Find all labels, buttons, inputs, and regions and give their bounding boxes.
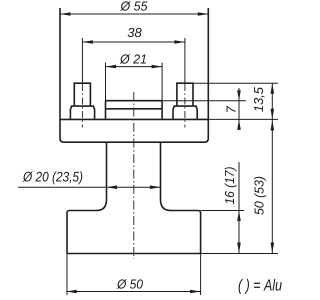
arrow 38 left	[82, 40, 93, 44]
extension lines Ø50	[67, 254, 201, 296]
arrow Ø50 right	[190, 290, 201, 294]
stud left base	[70, 106, 94, 119]
stem Ø20 sides with fillets	[97, 142, 171, 210]
projection line knob bottom	[201, 253, 278, 255]
stud right shank	[177, 83, 193, 105]
arrow 13,5 bottom	[271, 109, 275, 120]
label 16 (17)	[225, 167, 237, 204]
flange top edge	[60, 118, 208, 120]
projection line flange top	[208, 118, 278, 120]
arrow 7 top	[237, 90, 241, 101]
knob Ø50 outline	[67, 211, 201, 254]
dimension Ø55 line	[60, 13, 208, 15]
arrow 38 right	[174, 40, 185, 44]
dimension 16 (17) line	[238, 162, 240, 253]
arrow Ø55 right	[198, 12, 209, 16]
projection line boss top	[162, 100, 246, 102]
extension lines Ø21	[106, 63, 163, 101]
stud right base	[173, 106, 197, 119]
label Ø21	[120, 54, 146, 64]
arrow 50 bottom	[271, 243, 275, 254]
dimension Ø21 line	[106, 66, 163, 68]
arrow 7 bottom	[237, 119, 241, 129]
arrow 50 top	[271, 120, 275, 131]
stud left shank	[74, 83, 90, 105]
label Ø55	[120, 1, 147, 11]
knob bottom edge	[67, 253, 201, 255]
centerline main axis	[133, 92, 135, 259]
label 7	[227, 106, 236, 112]
flange Ø55 outline	[60, 8, 208, 142]
label 13,5	[254, 87, 265, 112]
dimension 13,5 / 50 (53) line	[271, 83, 273, 253]
arrow Ø21 left	[106, 65, 117, 69]
projection line knob top	[201, 210, 244, 212]
label Ø20 (23,5)	[23, 171, 83, 184]
arrow Ø20 right	[150, 185, 161, 189]
label 50 (53)	[254, 177, 266, 215]
arrow Ø20 left	[107, 185, 118, 189]
arrow Ø21 right	[152, 65, 163, 69]
label Ø50	[117, 279, 143, 289]
arrow Ø50 left	[66, 290, 77, 294]
label 38	[128, 28, 142, 37]
dimension Ø50 line	[66, 291, 200, 293]
dimension 38 line	[82, 41, 184, 43]
boss face line	[106, 108, 163, 110]
centerline right stud	[184, 84, 186, 128]
dimension Ø20 leader line	[18, 186, 160, 188]
dimension 7 line	[238, 88, 240, 130]
projection line stud top	[193, 82, 278, 84]
boss Ø21 sides	[106, 101, 163, 120]
arrow 16 top	[237, 211, 241, 222]
extension lines 38	[82, 38, 184, 83]
arrow 16 bottom	[237, 243, 241, 254]
boss top edge	[106, 100, 163, 102]
centerline left stud	[81, 84, 83, 128]
arrow Ø55 left	[60, 12, 71, 16]
note ( ) = Alu	[239, 279, 282, 294]
arrow 13,5 top	[271, 83, 275, 94]
